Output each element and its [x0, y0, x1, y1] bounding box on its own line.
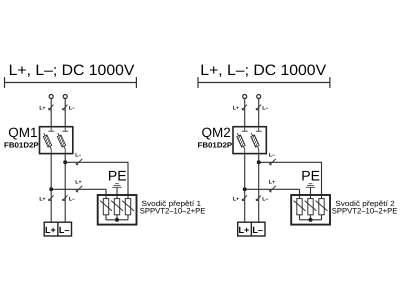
svg-text:L+: L+: [269, 180, 275, 186]
svg-text:PE: PE: [108, 167, 127, 183]
svg-text:L–: L–: [59, 225, 70, 235]
svg-text:L–: L–: [269, 153, 275, 159]
svg-text:L+: L+: [239, 225, 250, 235]
svg-text:FB01D2P: FB01D2P: [4, 141, 39, 150]
svg-text:L+: L+: [45, 225, 56, 235]
svg-text:QM2: QM2: [202, 125, 231, 140]
svg-text:L–: L–: [69, 196, 75, 202]
svg-text:L+: L+: [233, 106, 239, 112]
svg-text:L–: L–: [75, 153, 81, 159]
svg-text:L–: L–: [252, 225, 263, 235]
svg-text:L–: L–: [262, 196, 268, 202]
svg-text:L+, L–; DC 1000V: L+, L–; DC 1000V: [9, 62, 135, 79]
svg-text:QM1: QM1: [8, 125, 37, 140]
svg-text:L–: L–: [262, 106, 268, 112]
svg-text:L+, L–; DC 1000V: L+, L–; DC 1000V: [200, 62, 326, 79]
svg-text:PE: PE: [301, 167, 320, 183]
svg-text:SPPVT2–10–2+PE: SPPVT2–10–2+PE: [332, 207, 398, 216]
svg-text:L+: L+: [75, 180, 81, 186]
svg-text:L+: L+: [39, 106, 45, 112]
svg-text:L+: L+: [233, 196, 239, 202]
svg-text:L–: L–: [69, 106, 75, 112]
svg-text:SPPVT2–10–2+PE: SPPVT2–10–2+PE: [140, 207, 206, 216]
svg-text:L+: L+: [39, 196, 45, 202]
svg-text:FB01D2P: FB01D2P: [198, 141, 233, 150]
